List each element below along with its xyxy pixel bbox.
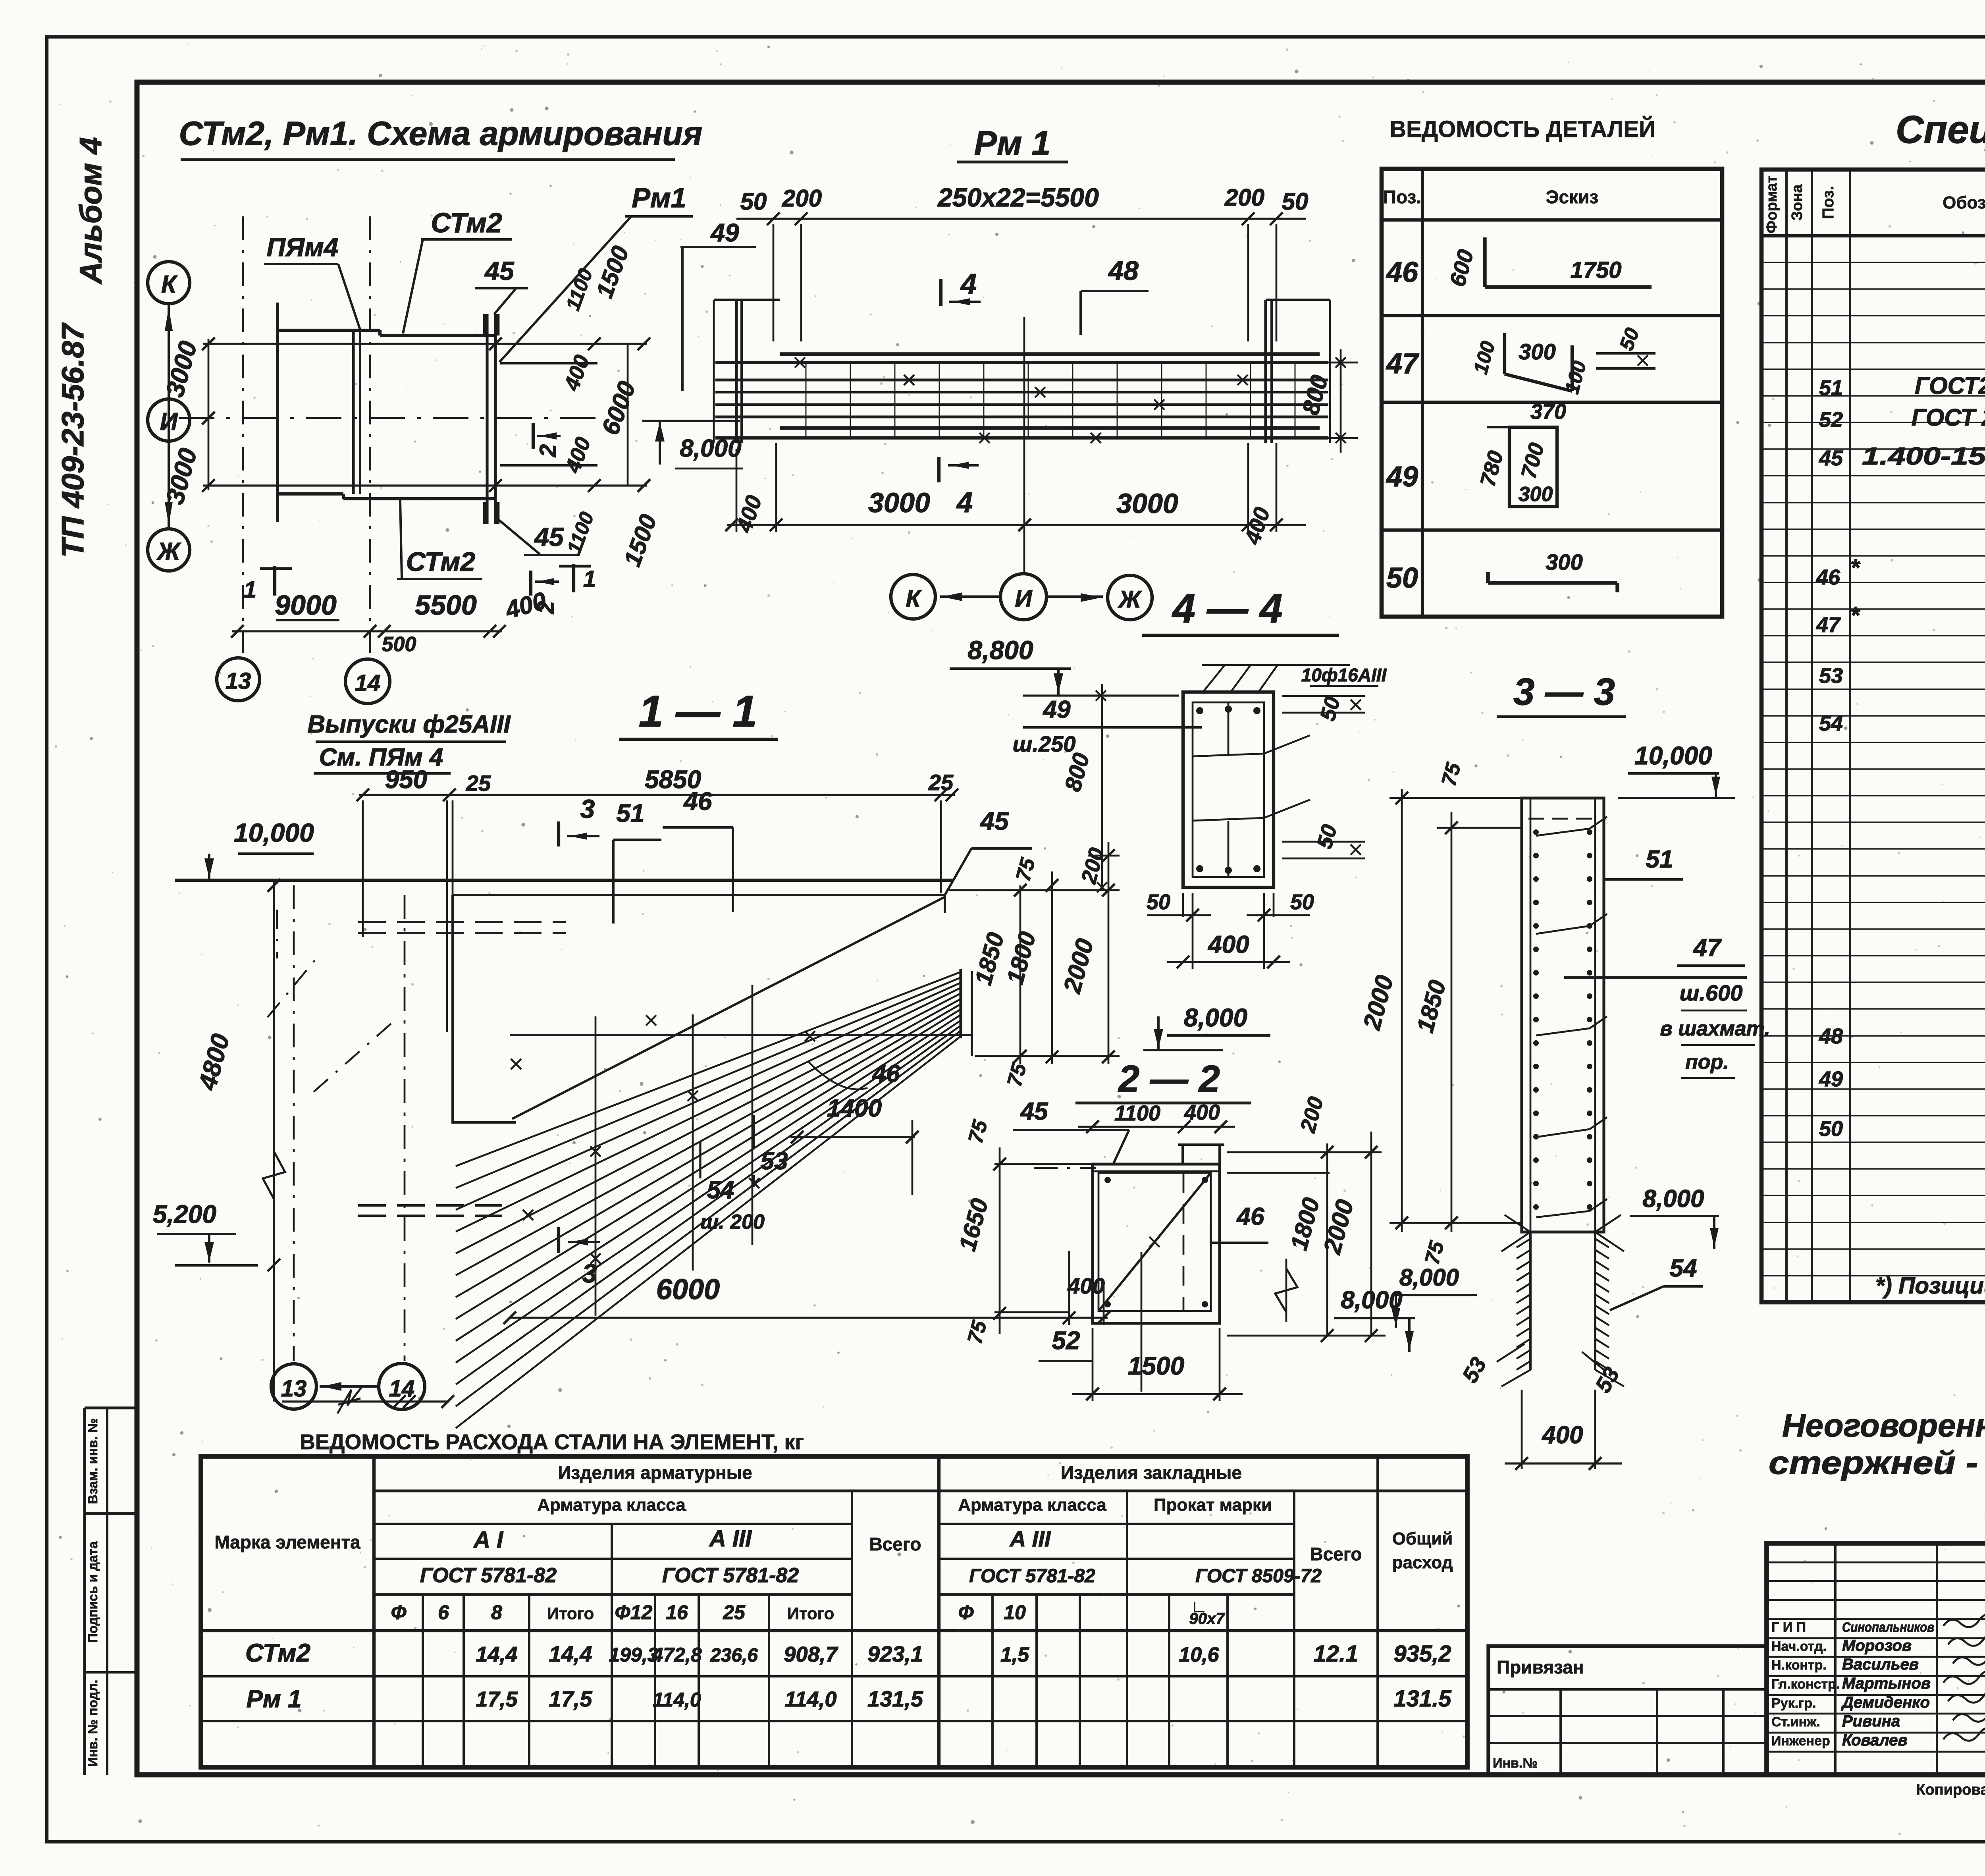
svg-text:45: 45 bbox=[484, 256, 515, 285]
svg-text:16: 16 bbox=[666, 1601, 688, 1623]
svg-text:ш.600: ш.600 bbox=[1680, 980, 1743, 1005]
svg-text:25: 25 bbox=[723, 1601, 746, 1623]
sec44 stirrup hooks bbox=[1264, 735, 1310, 754]
plan horizontal centerline bbox=[179, 417, 597, 419]
title block signatures bbox=[1943, 1615, 1985, 1627]
svg-text:2 — 2: 2 — 2 bbox=[1118, 1058, 1220, 1100]
rm1 axis circle Zh bbox=[1108, 575, 1152, 620]
svg-text:51: 51 bbox=[1819, 376, 1843, 400]
svg-text:8: 8 bbox=[491, 1601, 502, 1623]
svg-text:Гл.констр.: Гл.констр. bbox=[1771, 1677, 1840, 1692]
sec22 box inner bbox=[1098, 1173, 1211, 1311]
svg-text:А III: А III bbox=[709, 1526, 752, 1552]
sec44 dim 50 bottom right bbox=[1282, 841, 1365, 843]
svg-text:*) Позиции — см. ведомость дет: *) Позиции — см. ведомость деталей bbox=[1875, 1273, 1985, 1299]
plan axis 13 dashed line bbox=[242, 216, 244, 653]
svg-text:47: 47 bbox=[1386, 348, 1419, 380]
sec44 stirrups bbox=[1193, 754, 1264, 756]
svg-text:Ф12: Ф12 bbox=[615, 1601, 653, 1623]
rm1 axis arrows bbox=[940, 595, 1000, 598]
svg-text:13: 13 bbox=[281, 1376, 307, 1402]
svg-text:53: 53 bbox=[1819, 664, 1843, 688]
sec11 top dim line bbox=[359, 794, 955, 796]
svg-text:И: И bbox=[1015, 585, 1033, 612]
vedomost table frame bbox=[1382, 169, 1722, 617]
svg-text:в шахмат.: в шахмат. bbox=[1660, 1017, 1770, 1040]
svg-text:ш. 200: ш. 200 bbox=[700, 1211, 765, 1234]
sec33 rebar dots bbox=[1533, 829, 1539, 835]
rm1 top dim line bbox=[736, 218, 1306, 220]
svg-text:Обозначение: Обозначение bbox=[1943, 193, 1985, 212]
svg-text:Общий: Общий bbox=[1392, 1529, 1453, 1548]
svg-text:СТм2: СТм2 bbox=[406, 547, 476, 577]
rm1 left end plate bbox=[735, 300, 738, 443]
sec44 top leader lines 48 bbox=[1203, 665, 1225, 692]
svg-text:5,200: 5,200 bbox=[153, 1200, 216, 1228]
svg-text:4 — 4: 4 — 4 bbox=[1172, 586, 1282, 632]
rm1 beam outline top bbox=[780, 352, 1320, 356]
sec11 wall left edge bbox=[451, 895, 454, 1124]
svg-text:ВЕДОМОСТЬ РАСХОДА СТАЛИ НА ЭЛЕ: ВЕДОМОСТЬ РАСХОДА СТАЛИ НА ЭЛЕМЕНТ, кг bbox=[300, 1430, 804, 1454]
svg-text:Эскиз: Эскиз bbox=[1546, 187, 1598, 207]
svg-text:стержней - 200мм.: стержней - 200мм. bbox=[1769, 1445, 1985, 1481]
svg-text:200: 200 bbox=[782, 185, 822, 212]
svg-text:46: 46 bbox=[1236, 1203, 1264, 1230]
svg-text:1750: 1750 bbox=[1570, 257, 1621, 283]
sec11 main diagonal bbox=[512, 897, 944, 1119]
svg-text:3 — 3: 3 — 3 bbox=[1513, 671, 1615, 713]
sec44 rebar dots bbox=[1196, 707, 1203, 714]
svg-text:400: 400 bbox=[1207, 931, 1249, 958]
svg-text:935,2: 935,2 bbox=[1393, 1641, 1451, 1667]
svg-text:47: 47 bbox=[1693, 934, 1722, 962]
plan section mark 2 bottom bbox=[529, 571, 532, 596]
svg-text:Неоговоренный на листе шаг: Неоговоренный на листе шаг арматурных bbox=[1782, 1407, 1985, 1444]
plan wall bottom edge bbox=[278, 492, 343, 496]
svg-text:1: 1 bbox=[583, 566, 596, 592]
svg-text:*: * bbox=[1850, 602, 1860, 629]
steel table horizontals bbox=[374, 1489, 1467, 1492]
svg-text:Н.контр.: Н.контр. bbox=[1771, 1658, 1827, 1673]
svg-text:8,000: 8,000 bbox=[680, 435, 741, 462]
sec22 diagonal bbox=[1098, 1173, 1211, 1311]
svg-text:114,0: 114,0 bbox=[784, 1687, 836, 1711]
sec11 axis 13 dashed bbox=[293, 885, 295, 1361]
svg-text:923,1: 923,1 bbox=[867, 1641, 923, 1666]
vedomost sketch 47 bbox=[1503, 333, 1506, 374]
svg-text:199,3: 199,3 bbox=[609, 1644, 658, 1666]
svg-text:ГОСТ 23279-78: ГОСТ 23279-78 bbox=[1912, 404, 1985, 431]
specification row lines bbox=[1761, 262, 1985, 263]
svg-text:300: 300 bbox=[1519, 339, 1555, 364]
rm1 dim extension lines bbox=[773, 224, 775, 341]
svg-text:Всего: Всего bbox=[1310, 1544, 1362, 1564]
svg-text:Арматура класса: Арматура класса bbox=[537, 1495, 686, 1515]
svg-text:ГОСТ 8509-72: ГОСТ 8509-72 bbox=[1195, 1566, 1322, 1587]
rm1 x marks bbox=[795, 357, 805, 368]
svg-text:10,000: 10,000 bbox=[1634, 741, 1712, 770]
svg-text:45: 45 bbox=[1819, 446, 1843, 470]
plan section mark 1 left bbox=[273, 566, 276, 596]
svg-text:52: 52 bbox=[1819, 408, 1843, 432]
sec11 axis 14 dashed bbox=[404, 895, 406, 1361]
sec22 inner dashed vertical bbox=[1183, 1173, 1185, 1311]
svg-text:13: 13 bbox=[225, 668, 251, 694]
sec11 wall bottom left bbox=[453, 1121, 516, 1124]
svg-text:46: 46 bbox=[683, 787, 712, 816]
sec22 left dim 1650 bbox=[999, 1147, 1001, 1334]
plan stem wall lines bbox=[352, 330, 355, 494]
plan axis 14 dashed line bbox=[369, 216, 371, 653]
svg-text:ГОСТ 5781-82: ГОСТ 5781-82 bbox=[420, 1564, 557, 1587]
svg-text:Выпуски ф25АIII: Выпуски ф25АIII bbox=[307, 711, 511, 738]
sec22 rebar dots bbox=[1104, 1177, 1111, 1183]
sec11 left dim 4800 bbox=[273, 880, 275, 1402]
sec11 rebar fan bbox=[456, 972, 961, 1166]
vedomost sketch 50 bbox=[1488, 581, 1617, 584]
svg-text:Формат: Формат bbox=[1763, 175, 1780, 233]
svg-text:6000: 6000 bbox=[656, 1274, 720, 1305]
vedomost sketch 46 bbox=[1483, 237, 1486, 287]
svg-text:2: 2 bbox=[535, 444, 561, 457]
plan axis circle K bbox=[148, 262, 190, 304]
svg-text:10,6: 10,6 bbox=[1179, 1643, 1219, 1666]
title block frame bbox=[1767, 1543, 1985, 1775]
svg-text:500: 500 bbox=[382, 633, 416, 656]
sec11 dim extension verticals bbox=[362, 800, 364, 937]
specification table frame bbox=[1761, 170, 1985, 1302]
sec44 bottom extensions bbox=[1192, 893, 1194, 969]
svg-text:Инв. № подл.: Инв. № подл. bbox=[85, 1680, 100, 1767]
svg-text:472,8: 472,8 bbox=[651, 1644, 701, 1666]
sec22 box outer bbox=[1093, 1164, 1220, 1323]
svg-text:Копировал: Копировал bbox=[1916, 1782, 1985, 1798]
svg-text:49: 49 bbox=[1819, 1067, 1843, 1091]
svg-text:10ф16АIII: 10ф16АIII bbox=[1301, 665, 1387, 685]
svg-text:49: 49 bbox=[710, 218, 739, 247]
svg-text:51: 51 bbox=[616, 799, 644, 827]
svg-text:Итого: Итого bbox=[547, 1604, 594, 1623]
svg-text:ГОСТ23279-78: ГОСТ23279-78 bbox=[1915, 372, 1985, 399]
svg-text:200: 200 bbox=[1224, 184, 1264, 211]
plan axis circle 13 bbox=[217, 658, 260, 701]
svg-text:Поз.: Поз. bbox=[1383, 187, 1421, 207]
svg-text:СТм2, Рм1. Схема армирования: СТм2, Рм1. Схема армирования bbox=[179, 115, 703, 152]
sec22 dashed centerline bbox=[1034, 1167, 1096, 1169]
svg-text:Рук.гр.: Рук.гр. bbox=[1771, 1696, 1816, 1711]
svg-text:300: 300 bbox=[1546, 549, 1582, 575]
svg-text:А III: А III bbox=[1009, 1526, 1051, 1551]
sec44 dim 50 top right bbox=[1282, 695, 1365, 697]
svg-text:1100: 1100 bbox=[1114, 1101, 1160, 1125]
svg-text:Изделия арматурные: Изделия арматурные bbox=[558, 1462, 752, 1483]
sec11 dashed existing outline bbox=[268, 958, 316, 1017]
svg-text:3: 3 bbox=[580, 794, 595, 823]
sec11 wall right end bbox=[944, 895, 946, 913]
svg-text:Морозов: Морозов bbox=[1842, 1637, 1912, 1654]
svg-text:А I: А I bbox=[473, 1527, 504, 1553]
svg-text:370: 370 bbox=[1530, 400, 1566, 424]
svg-text:3000: 3000 bbox=[868, 487, 930, 518]
svg-text:Инженер: Инженер bbox=[1771, 1733, 1830, 1749]
plan section mark 1 right bbox=[572, 564, 575, 592]
svg-text:50: 50 bbox=[1819, 1117, 1843, 1141]
sec11 axis circle 14 bbox=[379, 1363, 425, 1409]
sec33 left dims bbox=[1401, 789, 1403, 1232]
svg-text:250x22=5500: 250x22=5500 bbox=[937, 183, 1099, 212]
svg-text:Марка элемента: Марка элемента bbox=[214, 1532, 360, 1552]
sec22 right dims bbox=[1326, 1143, 1328, 1336]
sec33 level line top bbox=[1618, 797, 1735, 799]
vedomost sketch 49 bbox=[1509, 427, 1557, 507]
sec11 wall bottom right bbox=[510, 1034, 972, 1036]
sec22 box top second line bbox=[1093, 1170, 1220, 1172]
svg-text:5500: 5500 bbox=[415, 590, 477, 621]
sec11 bottom axis dim line bbox=[282, 1400, 449, 1402]
svg-text:*: * bbox=[1850, 554, 1860, 581]
svg-text:Зона: Зона bbox=[1789, 184, 1806, 221]
svg-text:ГОСТ 5781-82: ГОСТ 5781-82 bbox=[662, 1564, 799, 1587]
svg-text:Ст.инж.: Ст.инж. bbox=[1771, 1714, 1820, 1729]
svg-text:К: К bbox=[906, 585, 922, 612]
plan axis circle 14 bbox=[345, 659, 390, 704]
sec11 axis arrow bbox=[320, 1385, 377, 1388]
svg-text:Рм 1: Рм 1 bbox=[247, 1685, 302, 1713]
svg-text:14: 14 bbox=[389, 1376, 415, 1402]
svg-text:131.5: 131.5 bbox=[1393, 1686, 1451, 1712]
scan noise speckles bbox=[869, 313, 871, 315]
svg-text:Ф: Ф bbox=[391, 1601, 406, 1623]
sec11 distribution bars bbox=[595, 1016, 597, 1316]
svg-text:Демиденко: Демиденко bbox=[1841, 1694, 1930, 1711]
svg-text:50: 50 bbox=[1386, 562, 1418, 594]
svg-text:К: К bbox=[161, 271, 178, 298]
rm1 center line bbox=[1023, 317, 1025, 574]
plan wall top edge bbox=[278, 329, 380, 332]
plan embed plate 45 bottom bbox=[483, 502, 488, 524]
svg-text:расход: расход bbox=[1392, 1553, 1453, 1572]
svg-text:49: 49 bbox=[1386, 461, 1418, 493]
sec33 ties bbox=[1536, 829, 1590, 836]
svg-text:45: 45 bbox=[979, 807, 1009, 835]
sec11 wall top edge bbox=[453, 894, 945, 896]
svg-text:ПЯм4: ПЯм4 bbox=[266, 232, 338, 262]
svg-text:131,5: 131,5 bbox=[867, 1686, 923, 1711]
svg-text:Арматура класса: Арматура класса bbox=[958, 1495, 1106, 1515]
left stamp strip bbox=[85, 1406, 137, 1409]
svg-text:50: 50 bbox=[740, 188, 767, 215]
svg-text:49: 49 bbox=[1043, 696, 1071, 723]
svg-text:8,800: 8,800 bbox=[967, 635, 1033, 665]
svg-text:Подпись и дата: Подпись и дата bbox=[85, 1541, 100, 1643]
svg-text:54: 54 bbox=[1670, 1255, 1697, 1282]
sec33 dashed top tie bbox=[1528, 818, 1598, 820]
sec44 column outer bbox=[1183, 692, 1274, 887]
svg-text:ВЕДОМОСТЬ ДЕТАЛЕЙ: ВЕДОМОСТЬ ДЕТАЛЕЙ bbox=[1389, 116, 1655, 142]
svg-text:Ф: Ф bbox=[958, 1601, 973, 1623]
plan dim line top bbox=[203, 343, 647, 345]
svg-text:Ривина: Ривина bbox=[1842, 1712, 1900, 1730]
sec33 lower column bbox=[1529, 1232, 1532, 1370]
svg-text:Альбом 4: Альбом 4 bbox=[73, 137, 108, 285]
plan right dim 6000 bbox=[627, 344, 629, 486]
rm1 elevation mark 8000 bbox=[642, 420, 740, 422]
svg-text:Прокат марки: Прокат марки bbox=[1154, 1495, 1272, 1515]
plan bottom dim line bbox=[232, 630, 502, 632]
plan Rm1 strut lines bbox=[500, 362, 597, 364]
svg-text:СТм2: СТм2 bbox=[245, 1639, 310, 1667]
privyazan block bbox=[1488, 1646, 1767, 1775]
svg-text:Мартынов: Мартынов bbox=[1842, 1675, 1931, 1692]
svg-text:10,000: 10,000 bbox=[234, 818, 314, 847]
svg-text:Ж: Ж bbox=[1118, 586, 1142, 613]
svg-text:52: 52 bbox=[1052, 1326, 1080, 1355]
sec11 axis circle 13 bbox=[271, 1364, 316, 1409]
svg-text:45: 45 bbox=[1020, 1098, 1048, 1125]
svg-text:53: 53 bbox=[761, 1147, 788, 1175]
svg-text:45: 45 bbox=[534, 522, 564, 551]
svg-text:1: 1 bbox=[244, 577, 256, 603]
svg-text:908,7: 908,7 bbox=[784, 1643, 838, 1666]
svg-text:1500: 1500 bbox=[1128, 1352, 1184, 1380]
svg-text:Привязан: Привязан bbox=[1497, 1657, 1584, 1677]
plan dim line bottom bbox=[203, 484, 647, 486]
rm1 right end plate bbox=[1264, 300, 1267, 443]
svg-text:14,4: 14,4 bbox=[549, 1641, 592, 1666]
svg-text:400: 400 bbox=[1541, 1421, 1583, 1449]
title block verticals left part bbox=[1834, 1543, 1837, 1775]
svg-text:17,5: 17,5 bbox=[476, 1687, 518, 1711]
sec33 lower column whiskers bbox=[1517, 1239, 1530, 1247]
svg-text:8,000: 8,000 bbox=[1399, 1264, 1459, 1291]
svg-text:12.1: 12.1 bbox=[1314, 1641, 1359, 1667]
plan axis circle Zh bbox=[148, 529, 190, 571]
svg-text:6: 6 bbox=[438, 1601, 449, 1623]
title block left rows bbox=[1767, 1562, 1985, 1564]
svg-text:Всего: Всего bbox=[869, 1534, 921, 1554]
svg-text:Поз.: Поз. bbox=[1819, 186, 1837, 219]
svg-text:Нач.отд.: Нач.отд. bbox=[1771, 1639, 1827, 1654]
rm1 bottom dim line bbox=[727, 524, 1306, 526]
svg-text:54: 54 bbox=[707, 1176, 734, 1204]
svg-text:Г И П: Г И П bbox=[1771, 1620, 1806, 1635]
plan section mark 2 right bbox=[532, 423, 535, 449]
svg-text:3: 3 bbox=[582, 1259, 597, 1288]
svg-text:51: 51 bbox=[1646, 846, 1673, 873]
sec11 ground line bbox=[175, 879, 953, 882]
svg-text:Ковалев: Ковалев bbox=[1842, 1731, 1908, 1749]
plan embed plate 45 top bbox=[483, 314, 488, 335]
sec44 column inner bbox=[1193, 702, 1264, 877]
svg-text:1400: 1400 bbox=[827, 1095, 882, 1122]
sec33 column outline bbox=[1522, 798, 1604, 1232]
svg-text:46: 46 bbox=[1816, 565, 1840, 589]
svg-text:8,000: 8,000 bbox=[1184, 1003, 1247, 1032]
sec44 level line bbox=[1023, 694, 1179, 696]
rm1 axis circle I bbox=[1000, 574, 1046, 620]
sec11 x marks bbox=[511, 1059, 521, 1069]
rm1 axis circle K bbox=[891, 575, 935, 619]
rm1 rebar lines bbox=[715, 361, 1328, 364]
svg-text:17,5: 17,5 bbox=[549, 1686, 593, 1711]
sec11 section mark 3 bottom bbox=[557, 1227, 560, 1253]
svg-text:48: 48 bbox=[1819, 1024, 1843, 1048]
svg-text:46: 46 bbox=[1386, 256, 1418, 288]
sec22 strut stub bbox=[1181, 1145, 1184, 1164]
svg-text:Ж: Ж bbox=[156, 538, 181, 565]
sec33 flare lines bbox=[1505, 1215, 1530, 1232]
svg-text:Итого: Итого bbox=[787, 1604, 834, 1623]
svg-text:25: 25 bbox=[466, 771, 491, 796]
svg-text:4: 4 bbox=[960, 268, 977, 300]
svg-text:54: 54 bbox=[1819, 711, 1843, 735]
svg-text:50: 50 bbox=[1282, 188, 1309, 215]
svg-text:10: 10 bbox=[1004, 1601, 1026, 1623]
svg-text:114,0: 114,0 bbox=[653, 1689, 701, 1711]
svg-text:14: 14 bbox=[355, 670, 381, 696]
svg-text:Рм 1: Рм 1 bbox=[974, 124, 1051, 162]
svg-text:4: 4 bbox=[956, 487, 973, 519]
svg-text:ГОСТ 5781-82: ГОСТ 5781-82 bbox=[969, 1566, 1095, 1587]
plan right wall strip bbox=[486, 314, 488, 524]
sec11 lower level line bbox=[175, 1264, 258, 1267]
svg-text:950: 950 bbox=[385, 765, 428, 794]
svg-text:Рм1: Рм1 bbox=[632, 182, 686, 213]
plan axis arrow line bbox=[168, 304, 170, 529]
svg-text:Васильев: Васильев bbox=[1842, 1656, 1919, 1673]
plan dim line verticals bbox=[208, 339, 210, 490]
rm1 stirrup ticks bbox=[806, 362, 807, 438]
svg-text:50: 50 bbox=[1147, 890, 1170, 914]
steel table frame bbox=[201, 1456, 1467, 1767]
svg-text:46: 46 bbox=[872, 1060, 900, 1087]
svg-text:Синопальников: Синопальников bbox=[1842, 1620, 1934, 1635]
sec11 right dim chain bbox=[1019, 885, 1021, 1064]
svg-text:48: 48 bbox=[1108, 256, 1139, 286]
svg-text:1.400-15.81.520-02: 1.400-15.81.520-02 bbox=[1862, 443, 1985, 470]
sec11 dashed ties bottom bbox=[358, 1204, 502, 1207]
steel table verticals bbox=[372, 1456, 376, 1767]
rm1 section mark 4 bottom bbox=[937, 457, 940, 482]
svg-text:1 — 1: 1 — 1 bbox=[639, 686, 757, 736]
svg-text:50: 50 bbox=[1290, 890, 1314, 914]
svg-text:8,000: 8,000 bbox=[1642, 1185, 1704, 1213]
rm1 right dim 800 bbox=[1340, 349, 1342, 453]
svg-text:25: 25 bbox=[928, 770, 954, 795]
svg-text:Изделия закладные: Изделия закладные bbox=[1061, 1462, 1242, 1483]
plan left wall vertical bbox=[276, 303, 279, 522]
svg-text:14,4: 14,4 bbox=[476, 1643, 517, 1666]
rm1 beam outline bottom bbox=[780, 426, 1320, 430]
svg-text:236,6: 236,6 bbox=[710, 1645, 758, 1666]
svg-text:9000: 9000 bbox=[275, 590, 337, 621]
svg-text:ТП 409-23-56.87: ТП 409-23-56.87 bbox=[55, 322, 90, 558]
svg-text:Взам. инв. №: Взам. инв. № bbox=[85, 1418, 100, 1504]
svg-text:1,5: 1,5 bbox=[1000, 1643, 1029, 1666]
svg-text:СТм2: СТм2 bbox=[431, 207, 502, 238]
svg-text:Инв.№: Инв.№ bbox=[1493, 1756, 1538, 1771]
sec11 dashed ties top bbox=[358, 921, 566, 923]
svg-text:47: 47 bbox=[1816, 613, 1841, 637]
svg-text:пор.: пор. bbox=[1685, 1051, 1729, 1074]
svg-text:300: 300 bbox=[1519, 483, 1553, 506]
svg-text:3000: 3000 bbox=[1116, 488, 1178, 519]
plan axis circle I bbox=[148, 399, 190, 441]
svg-text:90х7: 90х7 bbox=[1189, 1610, 1226, 1627]
svg-text:Спецификация СТм2, Рм1.: Спецификация СТм2, Рм1. bbox=[1896, 108, 1985, 151]
